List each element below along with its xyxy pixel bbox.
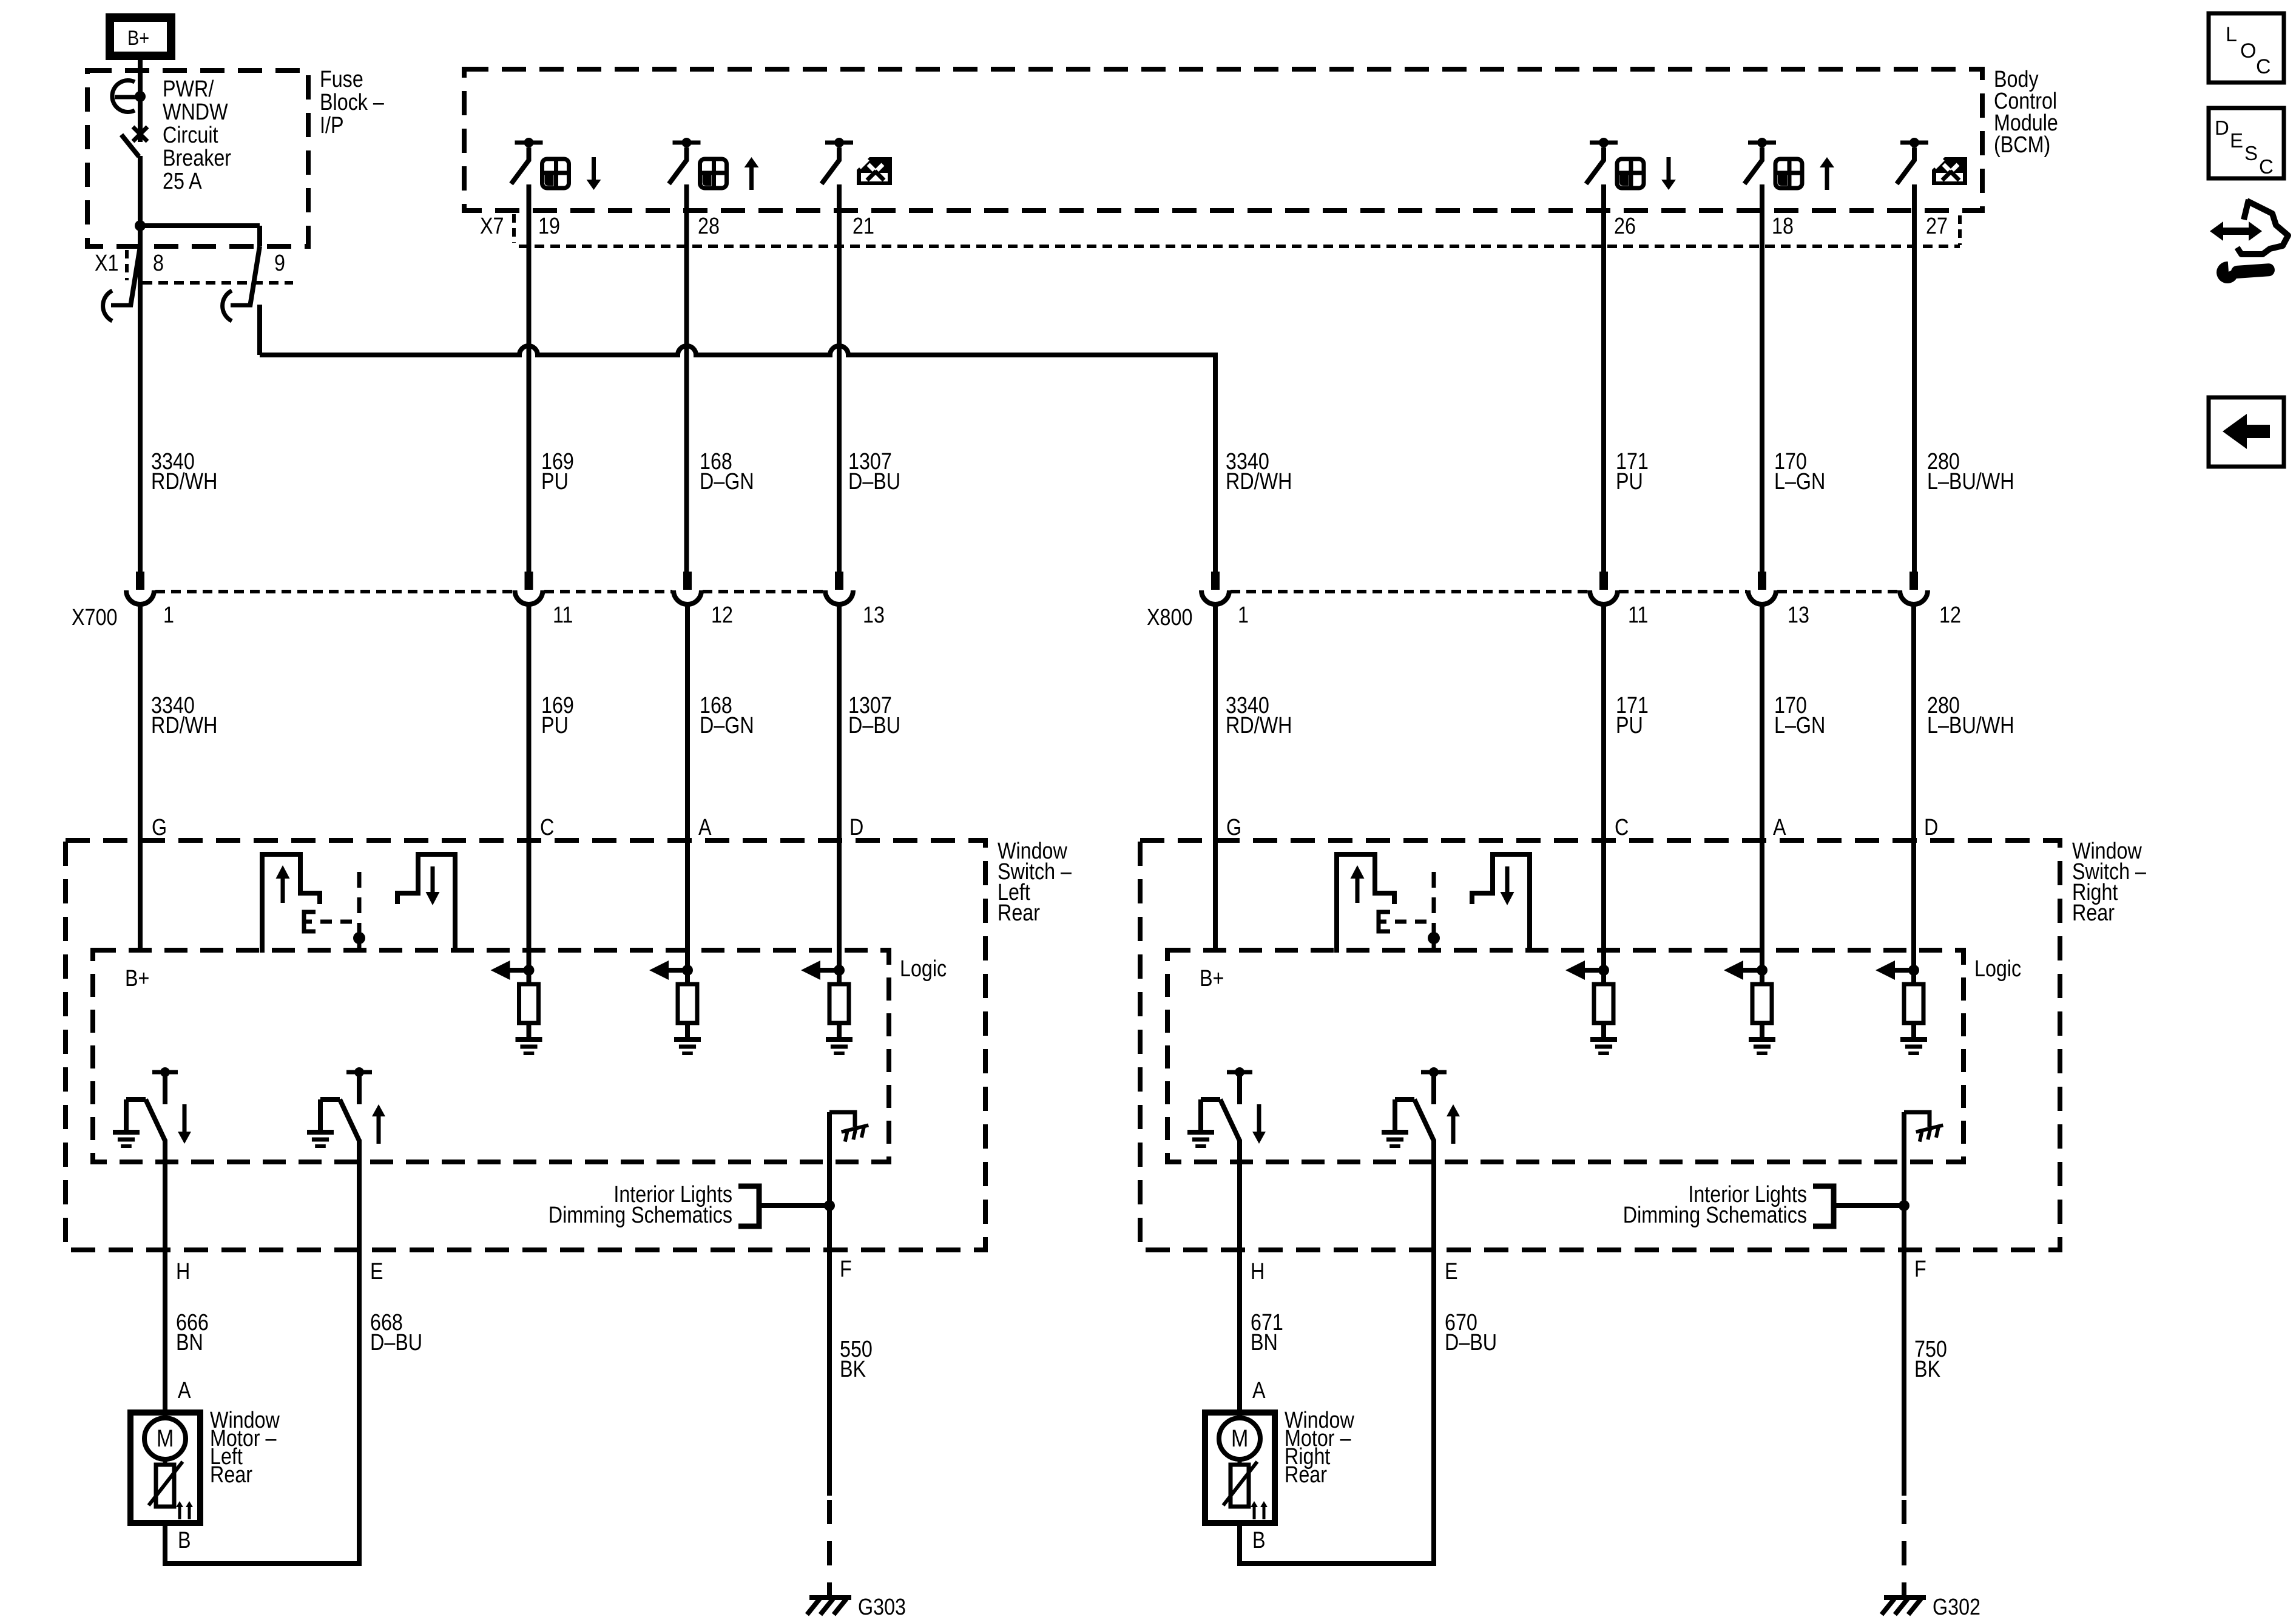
svg-text:1: 1	[163, 603, 174, 628]
svg-text:B: B	[1252, 1528, 1266, 1553]
svg-text:PU: PU	[541, 713, 569, 738]
svg-text:BK: BK	[840, 1357, 866, 1382]
svg-text:Rear: Rear	[1285, 1462, 1327, 1488]
svg-text:H: H	[1251, 1259, 1264, 1284]
svg-text:BN: BN	[1251, 1330, 1278, 1355]
svg-text:13: 13	[863, 603, 885, 628]
svg-text:WNDW: WNDW	[163, 100, 228, 125]
svg-text:Breaker: Breaker	[163, 146, 231, 171]
svg-text:Circuit: Circuit	[163, 123, 218, 148]
svg-text:C: C	[1615, 815, 1629, 840]
svg-text:H: H	[176, 1259, 190, 1284]
svg-text:D–BU: D–BU	[1445, 1330, 1497, 1355]
svg-text:D–BU: D–BU	[848, 713, 900, 738]
svg-text:Logic: Logic	[1974, 956, 2021, 982]
svg-text:O: O	[2240, 39, 2256, 62]
svg-text:X7: X7	[480, 214, 504, 239]
svg-text:X800: X800	[1147, 605, 1192, 630]
svg-text:L–BU/WH: L–BU/WH	[1927, 713, 2014, 738]
svg-text:11: 11	[553, 603, 573, 628]
svg-text:BK: BK	[1914, 1357, 1941, 1382]
svg-text:1: 1	[1238, 603, 1249, 628]
svg-text:X700: X700	[72, 605, 117, 630]
svg-text:A: A	[1252, 1378, 1266, 1403]
svg-text:RD/WH: RD/WH	[1226, 469, 1292, 495]
svg-text:27: 27	[1926, 214, 1948, 239]
svg-text:PWR/: PWR/	[163, 76, 214, 102]
svg-text:PU: PU	[1616, 713, 1643, 738]
svg-text:D: D	[849, 815, 863, 840]
svg-text:L–GN: L–GN	[1774, 713, 1825, 738]
svg-text:S: S	[2244, 142, 2258, 164]
svg-text:B: B	[178, 1528, 191, 1553]
svg-text:D: D	[1924, 815, 1938, 840]
svg-text:Logic: Logic	[900, 956, 947, 982]
svg-text:G302: G302	[1933, 1595, 1980, 1617]
svg-text:D–GN: D–GN	[700, 469, 754, 495]
svg-text:D–BU: D–BU	[370, 1330, 422, 1355]
svg-text:G: G	[1226, 815, 1241, 840]
svg-text:M: M	[1231, 1424, 1248, 1451]
svg-text:25 A: 25 A	[163, 169, 202, 194]
svg-text:Rear: Rear	[210, 1462, 252, 1488]
svg-text:Dimming Schematics: Dimming Schematics	[1623, 1203, 1807, 1228]
svg-text:12: 12	[711, 603, 733, 628]
svg-text:13: 13	[1788, 603, 1809, 628]
svg-text:Dimming Schematics: Dimming Schematics	[549, 1203, 732, 1228]
svg-text:E: E	[1445, 1259, 1458, 1284]
svg-text:(BCM): (BCM)	[1994, 132, 2050, 158]
svg-text:Fuse: Fuse	[320, 67, 363, 92]
svg-text:C: C	[2259, 155, 2274, 178]
svg-text:G: G	[152, 815, 167, 840]
svg-text:9: 9	[274, 251, 285, 276]
svg-text:Rear: Rear	[2072, 900, 2115, 926]
svg-text:A: A	[178, 1378, 191, 1403]
svg-text:12: 12	[1939, 603, 1961, 628]
svg-text:11: 11	[1628, 603, 1649, 628]
svg-text:X1: X1	[95, 251, 118, 276]
svg-text:I/P: I/P	[320, 113, 343, 138]
svg-text:Block –: Block –	[320, 90, 384, 115]
svg-text:18: 18	[1772, 214, 1794, 239]
svg-text:A: A	[1773, 815, 1786, 840]
svg-text:Rear: Rear	[998, 900, 1040, 926]
svg-text:L: L	[2226, 23, 2237, 46]
svg-text:D: D	[2215, 116, 2229, 139]
svg-text:A: A	[698, 815, 712, 840]
svg-text:L–GN: L–GN	[1774, 469, 1825, 495]
svg-text:B+: B+	[127, 26, 149, 50]
svg-text:E: E	[2230, 129, 2243, 152]
svg-text:D–GN: D–GN	[700, 713, 754, 738]
svg-text:D–BU: D–BU	[848, 469, 900, 495]
svg-text:PU: PU	[1616, 469, 1643, 495]
svg-text:21: 21	[853, 214, 874, 239]
svg-text:G303: G303	[858, 1595, 906, 1617]
svg-text:C: C	[540, 815, 554, 840]
svg-text:RD/WH: RD/WH	[151, 713, 217, 738]
svg-text:RD/WH: RD/WH	[1226, 713, 1292, 738]
svg-text:RD/WH: RD/WH	[151, 469, 217, 495]
svg-text:E: E	[370, 1259, 383, 1284]
svg-text:28: 28	[698, 214, 720, 239]
svg-text:B+: B+	[125, 966, 149, 991]
svg-text:8: 8	[153, 251, 164, 276]
svg-text:PU: PU	[541, 469, 569, 495]
svg-text:F: F	[840, 1257, 852, 1282]
svg-text:BN: BN	[176, 1330, 203, 1355]
svg-text:B+: B+	[1200, 966, 1224, 991]
svg-text:19: 19	[538, 214, 560, 239]
svg-text:F: F	[1914, 1257, 1926, 1282]
svg-text:C: C	[2256, 55, 2271, 78]
svg-text:L–BU/WH: L–BU/WH	[1927, 469, 2014, 495]
svg-text:M: M	[157, 1424, 174, 1451]
svg-text:26: 26	[1614, 214, 1636, 239]
